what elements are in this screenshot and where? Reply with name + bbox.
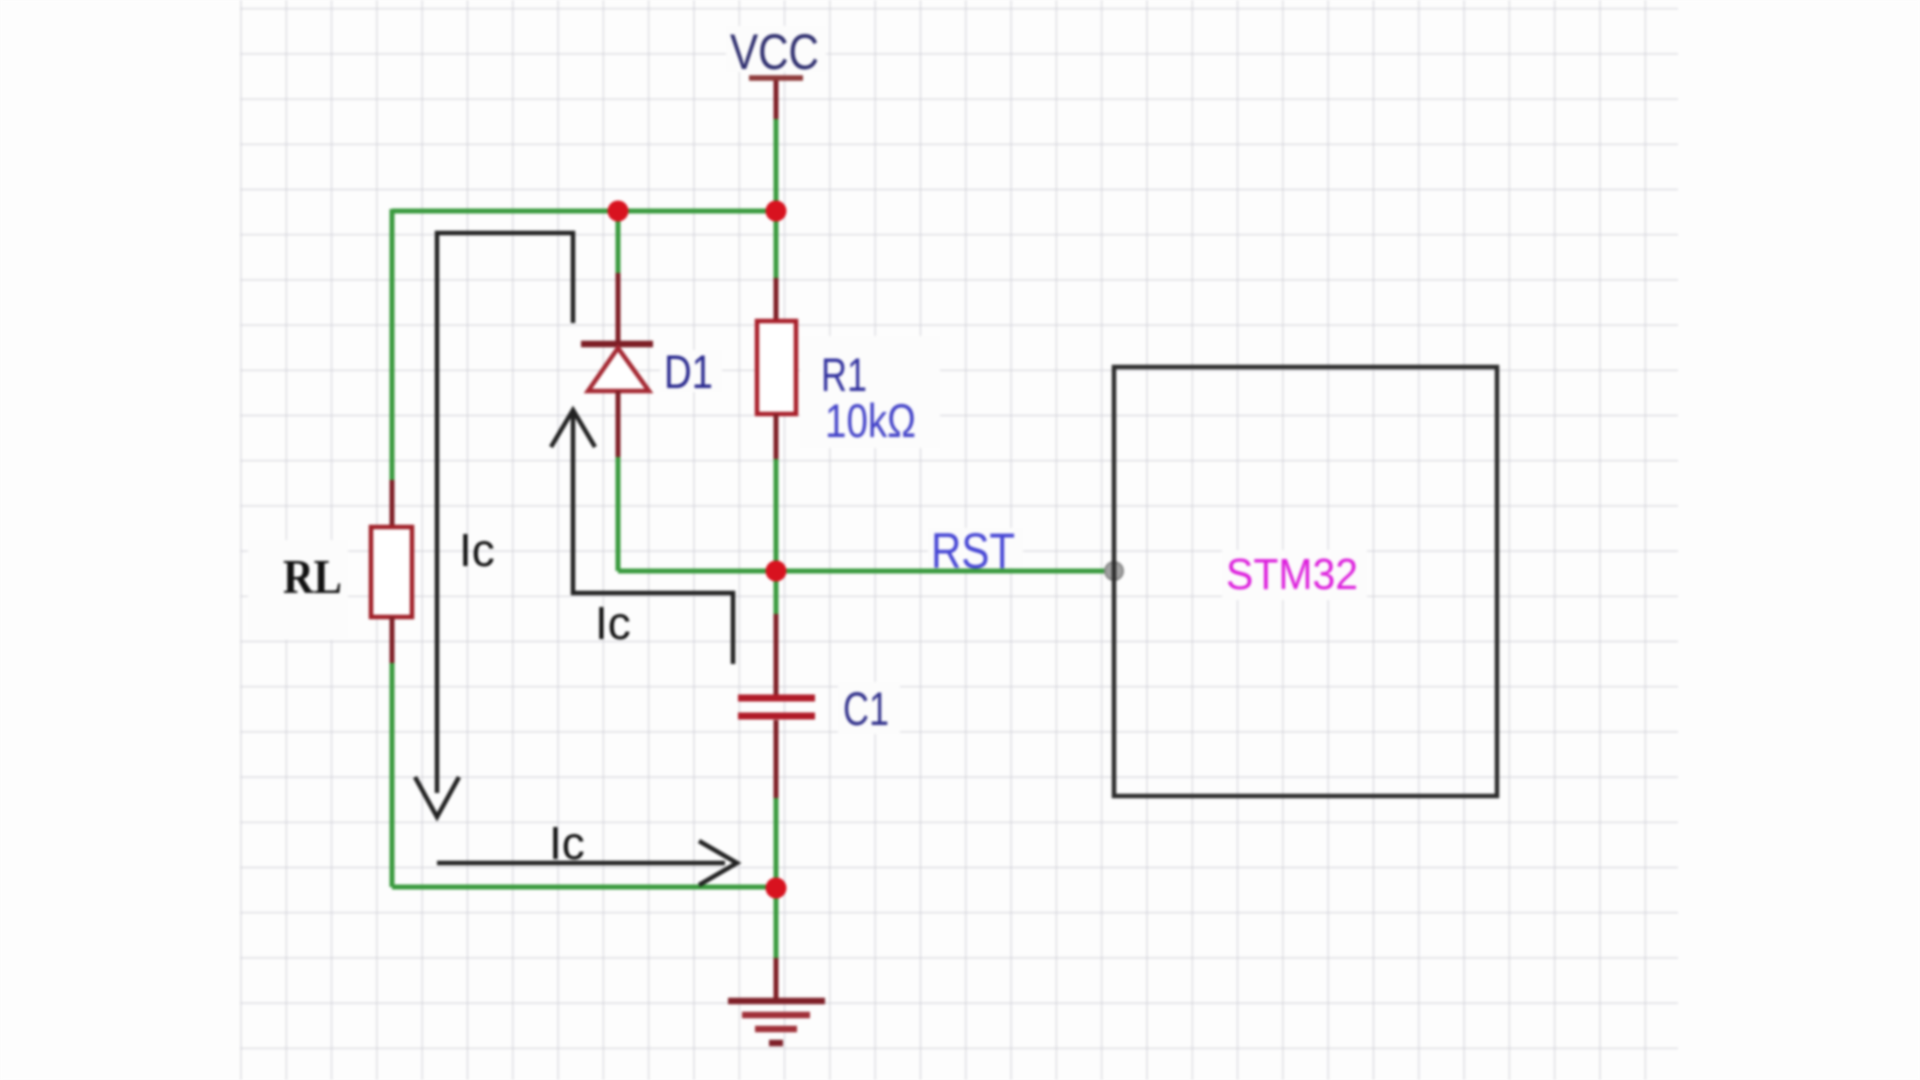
wire: D1 lower green down to RST net <box>616 457 621 571</box>
wire: R1 branch upper green <box>774 211 779 278</box>
wire: VCC stem green <box>774 119 779 211</box>
junction node at VCC/D1 <box>608 201 629 222</box>
wire: bottom horizontal green <box>392 885 776 890</box>
wire: R1 upper pin maroon <box>774 278 779 321</box>
svg-text:RST: RST <box>931 523 1015 579</box>
svg-text:Ic: Ic <box>549 817 585 869</box>
junction node at VCC/R1 <box>766 201 787 222</box>
wire: RST net horizontal green <box>618 569 1110 574</box>
wire: ground stem green <box>774 888 779 958</box>
wire: left vertical (RL branch upper, green) <box>390 209 395 480</box>
wire: D1 anode pin maroon <box>616 273 621 344</box>
wire: ground stem maroon <box>774 958 779 1001</box>
resistor R1 body <box>757 321 796 414</box>
svg-text:C1: C1 <box>843 682 889 735</box>
current loop arrow left (down) <box>415 233 573 817</box>
svg-text:D1: D1 <box>664 345 713 398</box>
junction node at RST <box>766 561 787 582</box>
label background patches <box>248 26 1367 734</box>
wire: R1 lower pin maroon <box>774 414 779 459</box>
svg-text:Ic: Ic <box>459 524 495 576</box>
ground bar 1 <box>728 998 825 1005</box>
grid area <box>240 0 1678 1080</box>
wire: RL lower green <box>390 663 395 887</box>
svg-text:STM32: STM32 <box>1226 550 1358 599</box>
wire: mid green below RST node <box>774 571 779 614</box>
capacitor C1 bottom plate <box>738 713 815 720</box>
wire: top horizontal net VCC rail <box>392 209 777 214</box>
power symbol VCC bar <box>749 75 803 81</box>
resistor RL body <box>371 527 412 617</box>
wire: D1 lower pin maroon <box>616 391 621 457</box>
resistor RL upper pin maroon <box>390 480 395 527</box>
svg-text:VCC: VCC <box>730 24 819 80</box>
wire: C1 lower pin maroon <box>774 720 779 798</box>
current arrow bottom (right) <box>437 841 737 885</box>
svg-text:10kΩ: 10kΩ <box>825 394 916 447</box>
svg-text:Ic: Ic <box>595 597 631 649</box>
ground bar 2 <box>742 1012 810 1019</box>
capacitor C1 top plate <box>738 695 815 702</box>
ground bar 3 <box>755 1026 797 1033</box>
wire: VCC stem maroon <box>774 78 779 119</box>
wire: R1 lower green to RST node <box>774 459 779 571</box>
wire: C1 upper pin maroon <box>774 614 779 695</box>
wire: C1 lower green to bottom node <box>774 798 779 888</box>
diode D1 triangle <box>588 348 649 391</box>
svg-text:RL: RL <box>283 549 342 604</box>
wire: D1 branch upper green <box>616 211 621 273</box>
ground bar 4 <box>769 1040 783 1047</box>
resistor RL lower pin maroon <box>390 617 395 663</box>
current arrow up (diode branch) <box>551 410 733 664</box>
diode D1 cathode bar <box>581 341 653 348</box>
junction node at bottom <box>766 878 787 899</box>
pin dot at STM32 RST input <box>1105 562 1123 580</box>
IC STM32 box <box>1114 367 1497 796</box>
